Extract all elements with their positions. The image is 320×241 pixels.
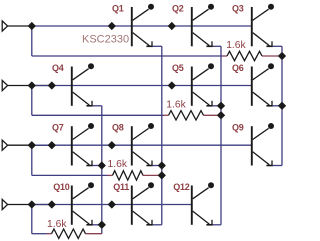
svg-text:1.6k: 1.6k [166, 100, 186, 111]
svg-text:1.6k: 1.6k [226, 40, 246, 51]
node: row 2 base junction x=51.8 [48, 82, 55, 89]
node: V4 x Q10 emitter [98, 221, 105, 228]
resistor R4 1.6k body [52, 229, 86, 238]
svg-text:Q10: Q10 [53, 182, 70, 192]
wire: lower horizontal row 4 [32, 233, 47, 235]
wire: input lead row 3 [8, 144, 52, 146]
svg-text:KSC2330: KSC2330 [82, 34, 129, 46]
input connector row 3 [2, 140, 7, 150]
wire: emitter rail V4 [101, 106, 103, 234]
wire: emitter rail V1 [281, 46, 283, 165]
node: V1 x resistor R1 [278, 52, 285, 59]
svg-text:1.6k: 1.6k [108, 159, 128, 170]
input connector row 2 [2, 80, 7, 90]
svg-text:Q9: Q9 [232, 123, 244, 133]
svg-text:Q5: Q5 [172, 63, 184, 73]
wire: drop to resistor feed row 1 [31, 26, 33, 56]
input connector row 1 [2, 21, 7, 31]
transistor Q11 [132, 182, 162, 225]
wire: base line row 4 [32, 204, 192, 206]
node: row 1 base junction x=111.8 [108, 22, 115, 29]
node: row 3 base junction x=51.8 [48, 142, 55, 149]
node: V3 x Q8 emitter [158, 162, 165, 169]
wire: drop to resistor feed row 2 [31, 86, 33, 116]
node: row 1 input junction [28, 22, 35, 29]
node: V2 x resistor R2 [217, 112, 224, 119]
wire: emitter rail V2 [220, 46, 222, 225]
node: row 4 base junction x=51.8 [48, 201, 55, 208]
svg-text:Q3: Q3 [232, 3, 244, 13]
resistor R2 1.6k body [169, 111, 204, 120]
node: V3 x resistor R3 [158, 172, 165, 179]
resistor R2 1.6k leads [164, 114, 169, 116]
wire: base line row 3 [32, 144, 252, 146]
svg-text:Q7: Q7 [52, 123, 64, 133]
node: row 1 base junction x=171.8 [168, 22, 175, 29]
resistor R1 1.6k leads [222, 55, 227, 57]
transistor Q2 [192, 4, 221, 47]
svg-text:Q8: Q8 [112, 123, 124, 133]
input connector row 4 [2, 199, 7, 209]
node: row 4 input junction [28, 201, 35, 208]
resistor R4 1.6k leads [47, 233, 52, 235]
node: row 2 base junction x=171.8 [168, 82, 175, 89]
wire: lower horizontal row 1 [32, 55, 222, 57]
svg-text:1.6k: 1.6k [47, 219, 67, 230]
svg-text:Q4: Q4 [52, 63, 64, 73]
node: row 3 input junction [28, 142, 35, 149]
transistor Q12 [192, 182, 221, 225]
svg-text:Q2: Q2 [172, 3, 184, 13]
transistor Q9 [252, 123, 282, 166]
wire: base line row 2 [32, 85, 252, 87]
wire: input lead row 1 [8, 25, 32, 27]
resistor R1 1.6k body [227, 51, 262, 60]
wire: input lead row 4 [8, 204, 52, 206]
wire: base line row 1 [32, 25, 252, 27]
wire: drop to resistor feed row 4 [31, 205, 33, 234]
node: V1 x Q6 emitter [278, 102, 285, 109]
wire: input lead row 2 [8, 85, 52, 87]
node: row 3 base junction x=111.8 [108, 142, 115, 149]
wire: lower horizontal row 2 [32, 114, 164, 116]
resistor R3 1.6k leads [108, 174, 113, 176]
transistor Q8 [132, 123, 162, 166]
transistor Q10 [72, 182, 102, 225]
transistor Q1 [132, 4, 162, 47]
wire: emitter rail V3 [161, 46, 163, 225]
svg-text:Q12: Q12 [173, 182, 190, 192]
transistor Q6 [252, 63, 282, 106]
transistor Q5 [192, 63, 221, 106]
transistor Q4 [72, 63, 102, 106]
svg-text:Q11: Q11 [113, 182, 129, 192]
svg-text:Q6: Q6 [232, 63, 244, 73]
resistor R3 1.6k body [113, 171, 144, 180]
node: V4 x Q7 emitter [98, 162, 105, 169]
node: row 2 input junction [28, 82, 35, 89]
svg-text:Q1: Q1 [112, 3, 124, 13]
transistor Q3 [252, 4, 282, 47]
node: V2 x Q5 emitter [217, 102, 224, 109]
wire: lower horizontal row 3 [32, 174, 108, 176]
transistor Q7 [72, 123, 102, 166]
node: row 4 base junction x=111.8 [108, 201, 115, 208]
wire: drop to resistor feed row 3 [31, 145, 33, 175]
